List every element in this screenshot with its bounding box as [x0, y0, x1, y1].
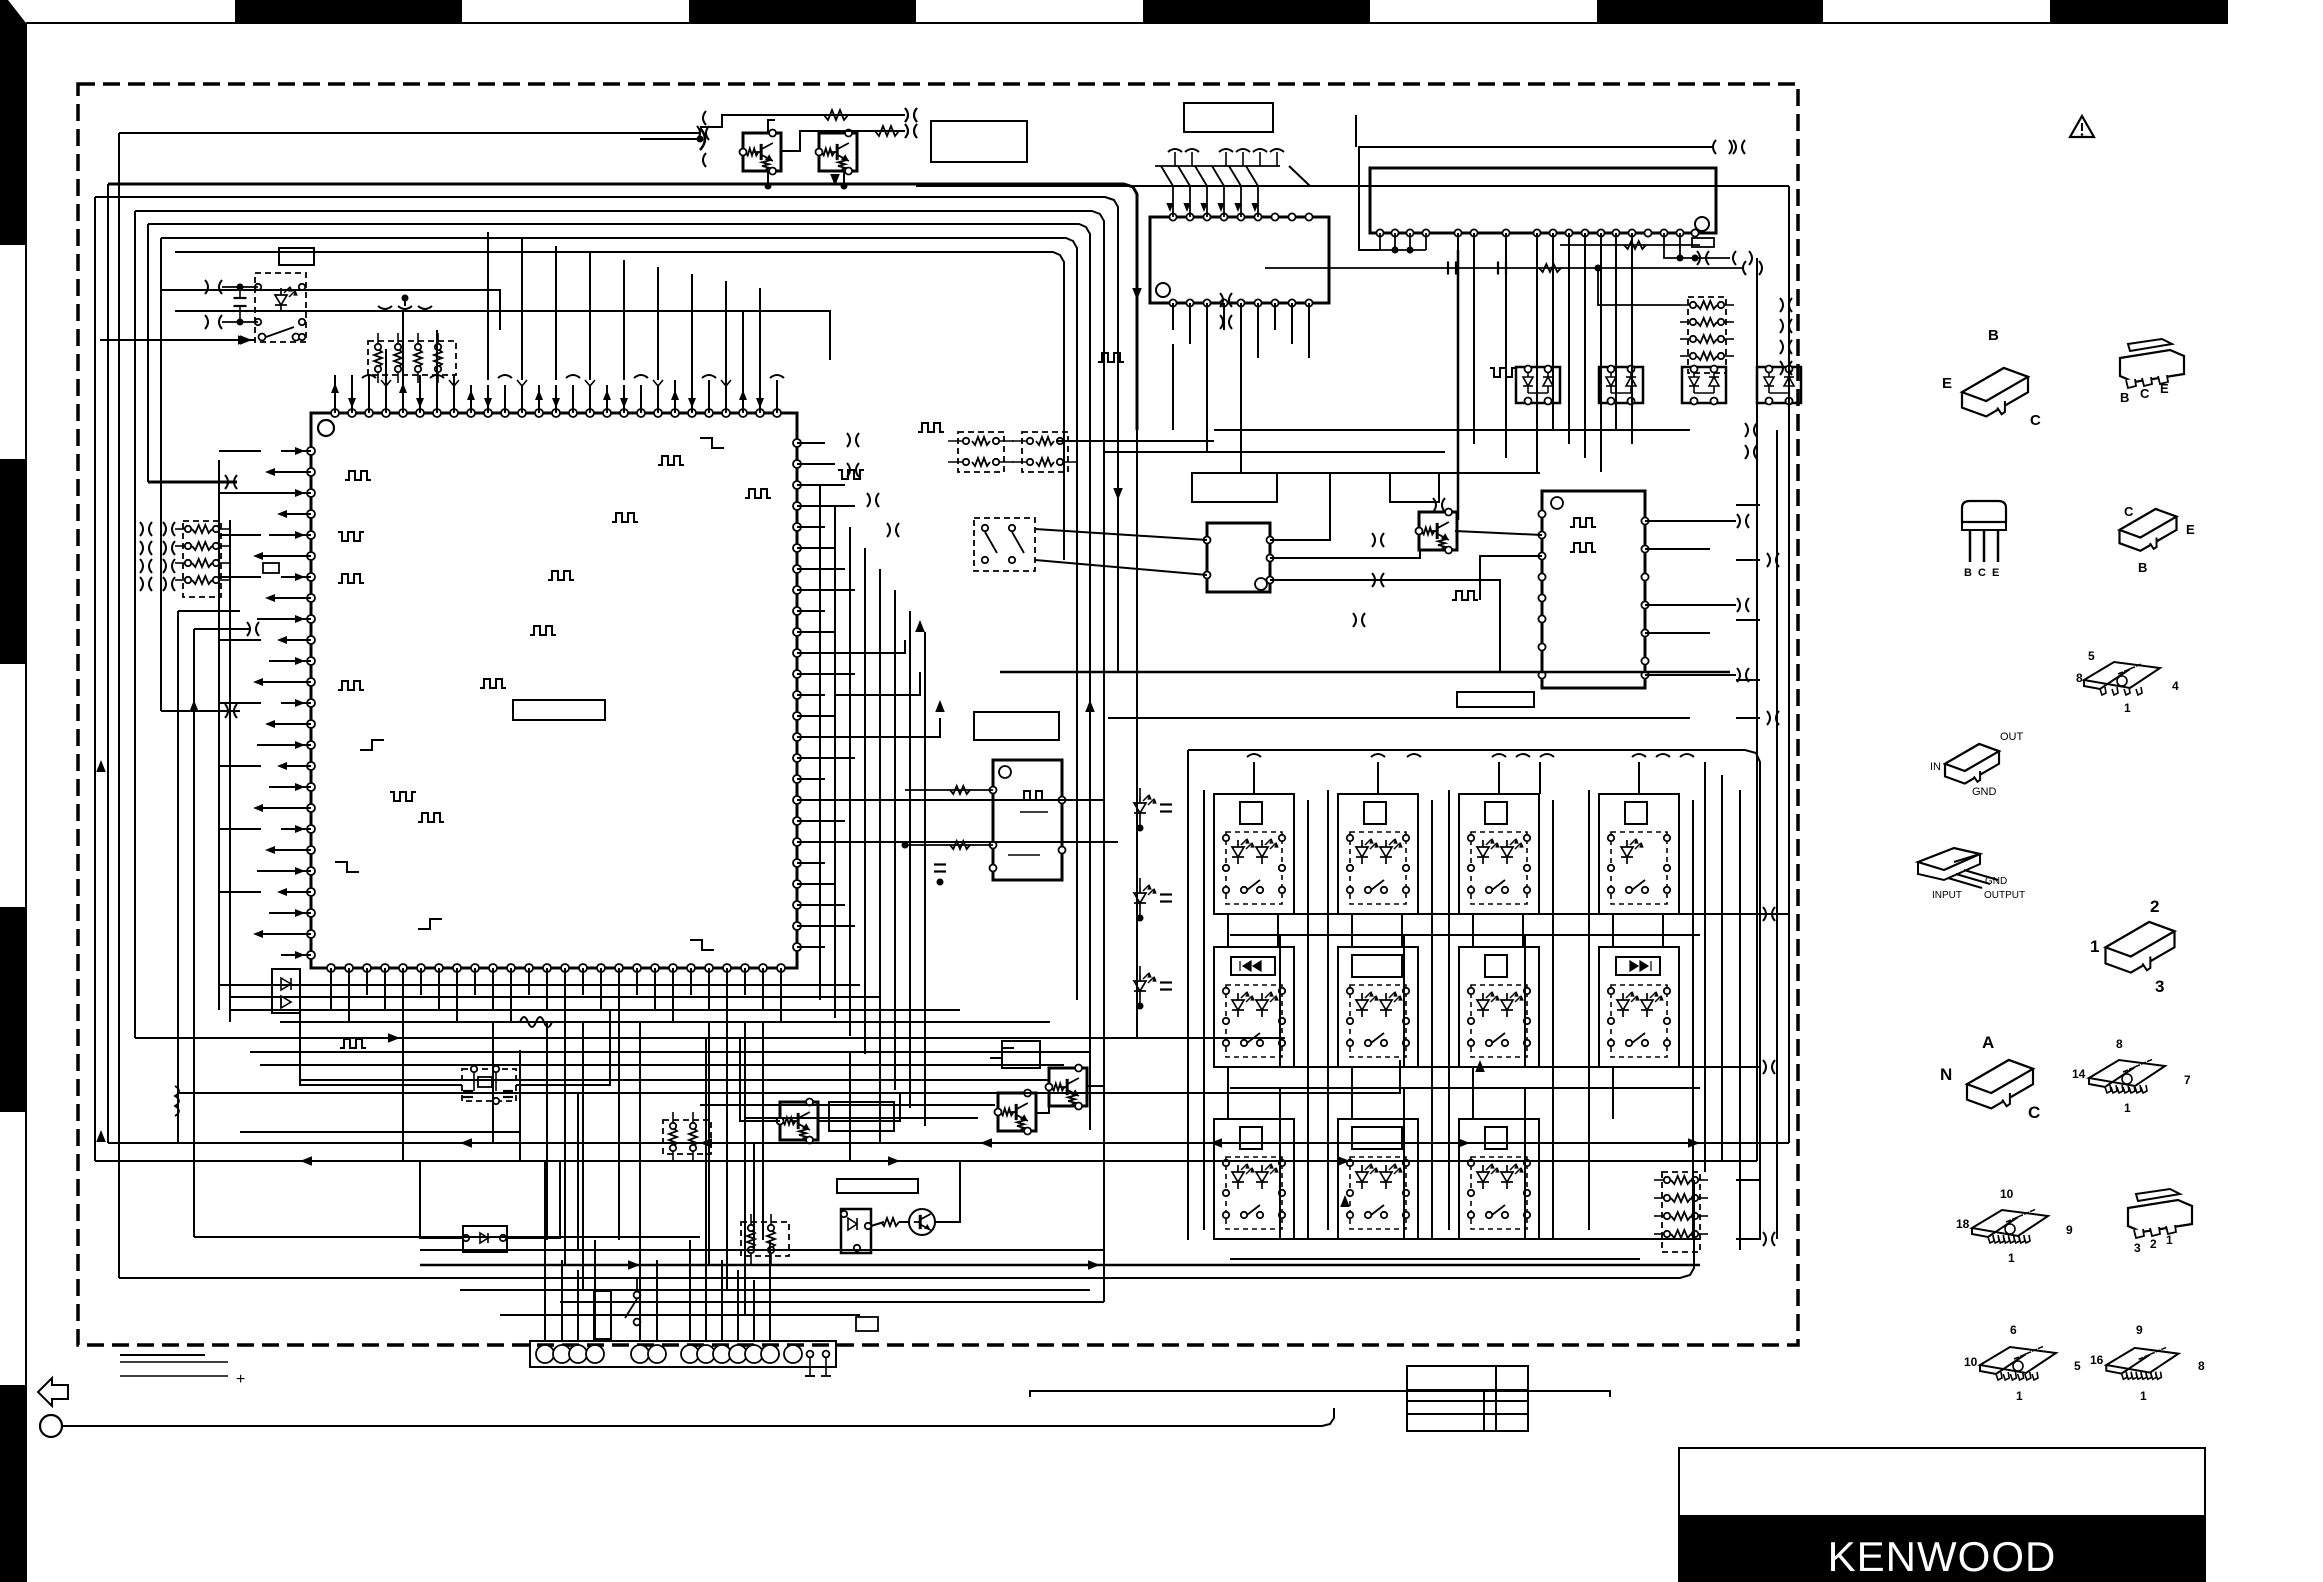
- wire: [1307, 800, 1309, 1240]
- svg-text:C: C: [2124, 504, 2134, 519]
- resistor pair dashed box 1: [958, 432, 1004, 472]
- mid label box 2: [1390, 473, 1439, 502]
- wire: [1270, 580, 1500, 672]
- U2 bottom pins: [1169, 299, 1176, 306]
- wire: [1270, 550, 1420, 558]
- wire: [1704, 762, 1706, 1172]
- svg-text:1: 1: [2090, 937, 2099, 956]
- wire: [218, 460, 220, 1010]
- wire: [257, 744, 311, 746]
- crystal X1 dashed box: [462, 1069, 516, 1101]
- LED box pins: [255, 284, 261, 290]
- title block box: [1679, 1448, 2205, 1582]
- wire: [797, 526, 825, 528]
- wire: [269, 660, 311, 662]
- wire: [1457, 250, 1460, 520]
- resistor network RN3 right: [1688, 297, 1726, 373]
- svg-text:16: 16: [2090, 1353, 2104, 1367]
- wire: [1448, 790, 1450, 1230]
- wire: [544, 1240, 546, 1341]
- registration mark top 1: [235, 0, 462, 22]
- wire: [1187, 750, 1189, 1240]
- wire: [564, 1022, 566, 1265]
- wire: [257, 681, 311, 683]
- wire: [500, 1314, 860, 1316]
- wire: [1089, 640, 1091, 1130]
- wire: [487, 385, 489, 413]
- bus arrowheads: [388, 1033, 400, 1043]
- wire: [1524, 1088, 1526, 1239]
- wire: [797, 484, 845, 486]
- package IC TSSOP16 drawing: [2106, 1348, 2178, 1373]
- U5 left pins: [1538, 510, 1545, 517]
- matrix top entry braces: [1247, 754, 1261, 757]
- IC U5 body: [1542, 491, 1645, 688]
- wire: [1214, 913, 1789, 915]
- wire: [281, 765, 311, 767]
- wire: [894, 590, 896, 1090]
- U2 segment fan: [1172, 186, 1174, 217]
- wire: [1692, 800, 1694, 1240]
- wire: [1736, 559, 1760, 561]
- wire: [384, 968, 386, 1010]
- svg-text:OUTPUT: OUTPUT: [1984, 890, 2025, 901]
- svg-text:8: 8: [2198, 1359, 2205, 1373]
- conn top rect: [856, 1317, 878, 1331]
- wire: [899, 1221, 909, 1223]
- wire: [269, 849, 311, 851]
- wire: [1403, 935, 1405, 1067]
- svg-text:1: 1: [2124, 701, 2131, 715]
- wire: [230, 1009, 960, 1011]
- wire: [219, 828, 261, 830]
- wire: [1600, 233, 1602, 472]
- wire: [1240, 344, 1242, 473]
- wire: [134, 211, 136, 1038]
- wire: [560, 1301, 1104, 1303]
- wire: [519, 1050, 521, 1161]
- wire: [845, 841, 1118, 843]
- wire: [759, 380, 761, 413]
- wire: [1539, 762, 1541, 794]
- wire: [767, 185, 769, 187]
- wire: [107, 184, 109, 1143]
- wire: [742, 380, 744, 413]
- svg-text:3: 3: [2155, 977, 2164, 996]
- wire: [1291, 303, 1293, 344]
- U5 waveforms: [1570, 518, 1596, 527]
- U3 wrap wire: [1359, 147, 1712, 250]
- package IC SOIC14 drawing: [2089, 1060, 2165, 1086]
- key switch S3 unit: [1214, 794, 1294, 914]
- wire: [269, 786, 311, 788]
- wire: [1230, 934, 1700, 936]
- tall label rect: [594, 1291, 611, 1339]
- wire: [269, 912, 311, 914]
- wire: [521, 239, 523, 380]
- wire: [797, 736, 845, 738]
- wire: [708, 380, 710, 413]
- wire: [1631, 233, 1633, 444]
- wire: [1240, 472, 1540, 474]
- legend line 2: [120, 1361, 228, 1363]
- key switch S9 unit: [1459, 947, 1539, 1067]
- wire: [95, 1160, 1757, 1162]
- switch S1: [259, 334, 266, 341]
- Q6 label box: [1002, 1041, 1040, 1068]
- wire: [797, 652, 845, 654]
- wire: [640, 385, 642, 413]
- wire: [1612, 1067, 1614, 1119]
- wire: [1536, 233, 1538, 472]
- U5 label box: [1457, 692, 1534, 707]
- wire: [1240, 303, 1242, 344]
- wire: [1736, 1066, 1760, 1068]
- wire: [769, 1240, 771, 1341]
- wire: [219, 534, 261, 536]
- outer dashed frame: [78, 84, 1798, 1345]
- LED D1: [275, 295, 287, 305]
- svg-text:A: A: [1982, 1033, 1994, 1052]
- package IC TSSOP14 drawing: [1980, 1347, 2056, 1373]
- wire: [1736, 504, 1760, 506]
- opto diode box OP2: [1599, 367, 1643, 403]
- wire: [674, 380, 676, 413]
- wire: [1172, 344, 1174, 430]
- connector pair top1: [905, 108, 908, 122]
- wire: [147, 224, 149, 482]
- wire: [1522, 914, 1524, 947]
- wire: [1662, 914, 1664, 947]
- wire: [420, 968, 422, 995]
- wire: [402, 1022, 404, 1161]
- wire: [797, 883, 835, 885]
- opto diode box OP4: [1757, 367, 1801, 403]
- wire: [460, 1289, 1090, 1291]
- wire: [368, 375, 370, 413]
- wire: [726, 1022, 728, 1290]
- package IC SOIC16 drawing: [1972, 1210, 2048, 1236]
- wire: [797, 904, 845, 906]
- wire: [257, 933, 311, 935]
- wire: [845, 718, 940, 737]
- wire: [1056, 440, 1214, 442]
- resistor network RN6 matrix: [1662, 1172, 1700, 1252]
- wire: [521, 385, 523, 413]
- svg-text:N: N: [1940, 1065, 1952, 1084]
- wire: [835, 799, 1104, 801]
- wire: [1274, 303, 1276, 330]
- wire: [1431, 800, 1433, 1240]
- zener box: [463, 1226, 507, 1252]
- wire: [487, 232, 489, 380]
- registration mark top 4: [1597, 0, 1823, 22]
- resistor R top1: [824, 110, 848, 120]
- wire: [230, 996, 880, 998]
- wire: [1736, 619, 1760, 621]
- wire: [1230, 1258, 1640, 1260]
- wire: [1615, 233, 1617, 430]
- wire: [1498, 762, 1500, 794]
- wire: [797, 547, 835, 549]
- wire: [1214, 429, 1690, 431]
- svg-text:E: E: [1992, 567, 1999, 579]
- wire: [797, 820, 845, 822]
- wire: [250, 1051, 1090, 1053]
- svg-text:B: B: [2138, 560, 2147, 575]
- wire: [1289, 166, 1310, 186]
- registration mark top 5: [2050, 0, 2228, 22]
- wire: [229, 520, 231, 1022]
- wire: [623, 385, 625, 413]
- wire: [1645, 674, 1736, 676]
- wire: [1473, 233, 1475, 444]
- wire: [819, 1093, 900, 1121]
- package TR6 drawing: [1967, 1060, 2033, 1108]
- wire: [492, 1022, 494, 1143]
- svg-text:KENWOOD: KENWOOD: [1828, 1533, 2057, 1580]
- wire: [780, 968, 782, 1022]
- wire: [334, 375, 336, 413]
- wire: [744, 1022, 746, 1315]
- wire: [119, 1180, 1694, 1278]
- transistor Q2 box: [819, 133, 857, 171]
- registration mark left 3: [0, 907, 26, 1112]
- U1 left pin arrows: [295, 447, 305, 455]
- svg-text:B: B: [2120, 390, 2129, 405]
- wire: [849, 1052, 851, 1161]
- revision table: [1407, 1366, 1528, 1431]
- wire Q1 collector up: [768, 120, 775, 133]
- U1 sine glyph: [520, 1017, 552, 1027]
- svg-text:8: 8: [2116, 1037, 2123, 1051]
- wire: [385, 375, 387, 413]
- wire: [219, 984, 860, 986]
- wire: [135, 211, 1104, 473]
- wire: [564, 968, 566, 1022]
- wire: [753, 1143, 755, 1250]
- wire: [1308, 303, 1310, 358]
- wire: [1739, 790, 1741, 1250]
- wire: [300, 1010, 462, 1085]
- connector strip CN1: [530, 1341, 836, 1367]
- wire: [797, 505, 855, 507]
- wire: [589, 385, 591, 413]
- wire: [582, 1022, 584, 1093]
- wire: [1472, 1067, 1474, 1119]
- U3 pin join wires: [1379, 233, 1381, 250]
- wire: [797, 442, 825, 444]
- wire: [1279, 1088, 1281, 1239]
- wire: [636, 968, 638, 995]
- wire: [639, 1240, 641, 1341]
- wire: [656, 1260, 658, 1341]
- svg-text:B: B: [1988, 327, 1999, 344]
- svg-text:C: C: [2030, 412, 2041, 429]
- svg-text:1: 1: [2166, 1233, 2173, 1247]
- wire: [1327, 790, 1329, 1230]
- wire: [269, 597, 311, 599]
- wire: [753, 1280, 755, 1341]
- wire Q1-Q2 join: [767, 171, 769, 186]
- wire: [330, 968, 332, 1010]
- wire: [725, 380, 727, 413]
- svg-text:GND: GND: [1972, 786, 1997, 798]
- wire: [849, 527, 851, 1036]
- wire: [1480, 556, 1542, 600]
- wire: [438, 968, 440, 1010]
- resistor Q5: [881, 1218, 899, 1226]
- capacitor C1: [234, 297, 247, 299]
- wire: [797, 862, 825, 864]
- wire: [835, 640, 905, 653]
- package REG3 drawing (SOT223): [2128, 1200, 2192, 1232]
- opto box OP5: [841, 1209, 871, 1253]
- wire: [257, 807, 311, 809]
- wire: [689, 1240, 691, 1341]
- wire: [797, 799, 835, 801]
- capacitor C11: [1497, 262, 1499, 275]
- wire: [594, 1240, 596, 1341]
- wire: [742, 311, 744, 380]
- wire: [1377, 762, 1379, 794]
- wire: [879, 1065, 881, 1143]
- wire: [606, 385, 608, 413]
- wire: [240, 1131, 520, 1133]
- key switch S13 unit: [1459, 1119, 1539, 1239]
- wire: [94, 197, 96, 1161]
- opto diode box OP1: [1516, 367, 1560, 403]
- wire: [474, 968, 476, 995]
- package REG2 drawing (TO220): [1918, 848, 1980, 870]
- wire: [1721, 775, 1723, 1160]
- wire fuse branch: [1560, 244, 1700, 246]
- wire: [1351, 914, 1353, 947]
- U6 left wiring: [950, 786, 970, 794]
- wire: [118, 133, 120, 1278]
- U1 right pins: [793, 439, 801, 447]
- wire: [1214, 1238, 1700, 1240]
- wire: [1584, 233, 1586, 458]
- resistor R top2: [875, 126, 899, 136]
- svg-text:10: 10: [2000, 1187, 2014, 1201]
- svg-text:1: 1: [2124, 1101, 2131, 1115]
- wire: [1645, 520, 1736, 522]
- wire: [1036, 1105, 1049, 1113]
- registration mark top-left corner: [0, 0, 26, 245]
- wire: [762, 1022, 764, 1240]
- wire: [726, 968, 728, 1022]
- svg-text:6: 6: [2010, 1323, 2017, 1337]
- resistor network RN4: [663, 1120, 711, 1154]
- wire: [740, 1038, 780, 1121]
- wire: [175, 311, 830, 360]
- wire: [419, 375, 421, 413]
- svg-text:2: 2: [2150, 897, 2159, 916]
- wire: [657, 267, 659, 380]
- wire: [148, 224, 1090, 640]
- wire: [436, 375, 438, 413]
- wire: [528, 968, 530, 995]
- wire: [108, 1142, 1789, 1144]
- wire: [797, 631, 835, 633]
- transistor Q4 box: [780, 1102, 818, 1140]
- svg-text:INPUT: INPUT: [1932, 890, 1962, 901]
- wire: [691, 274, 693, 380]
- wire: [776, 380, 778, 413]
- svg-text:5: 5: [2088, 649, 2095, 663]
- indicator LED D3: [1134, 803, 1146, 813]
- svg-text:E: E: [2186, 522, 2195, 537]
- wire: [725, 281, 727, 380]
- wire: [555, 385, 557, 413]
- wire: [257, 555, 311, 557]
- page arrow symbol: [38, 1378, 68, 1406]
- wire: [269, 534, 311, 536]
- wire: [705, 1250, 707, 1341]
- wire: [618, 968, 620, 1022]
- connector pair top2: [905, 124, 908, 138]
- wire: [1257, 303, 1259, 358]
- svg-text:14: 14: [2072, 1067, 2086, 1081]
- U1 step glyph bottom: [990, 1048, 1014, 1058]
- wire: [1076, 590, 1078, 1000]
- wire: [797, 757, 855, 759]
- wire: [1227, 914, 1229, 947]
- wire: [745, 1117, 978, 1119]
- label box top-left: [279, 248, 314, 265]
- wire: [1552, 233, 1554, 430]
- wire: [507, 1161, 560, 1238]
- svg-text:B: B: [1964, 567, 1972, 579]
- U1 left pins: [307, 447, 315, 455]
- wire: [1736, 913, 1760, 915]
- wire: [219, 492, 261, 494]
- key switch S11 unit: [1214, 1119, 1294, 1239]
- wire: [280, 1021, 1050, 1023]
- wire: [797, 673, 855, 675]
- wire: [1035, 560, 1207, 575]
- wire: [1736, 1179, 1760, 1181]
- U4 pins: [1204, 537, 1211, 544]
- U3 right pins join: [1664, 233, 1695, 258]
- label box bottom: [837, 1179, 918, 1193]
- wire: [577, 1093, 579, 1250]
- wire: [797, 463, 835, 465]
- key switch S12 unit: [1338, 1119, 1418, 1239]
- wire: [1227, 1067, 1229, 1119]
- U5 right pins: [1641, 517, 1648, 524]
- wire: [935, 1161, 960, 1222]
- wire: [193, 629, 195, 1237]
- resistor R21: [1624, 241, 1646, 249]
- wire: [1505, 233, 1507, 458]
- wire: [1612, 914, 1614, 947]
- wire: [351, 375, 353, 413]
- wire: [623, 260, 625, 380]
- wire: [1638, 762, 1640, 794]
- U1 signal waveform glyphs: [345, 471, 371, 480]
- connector gnd stubs: [809, 1358, 811, 1376]
- U4 label box: [1192, 473, 1277, 502]
- bottom bracket wire: [1030, 1391, 1610, 1397]
- wire: [420, 1264, 1700, 1267]
- package TR2 drawing: [2120, 350, 2184, 382]
- wire: [1104, 451, 1445, 453]
- wire: [1736, 1238, 1760, 1240]
- svg-text:10: 10: [1964, 1355, 1978, 1369]
- wire: [759, 288, 761, 380]
